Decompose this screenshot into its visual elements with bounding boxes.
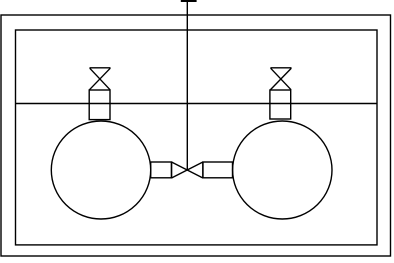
inner enclosure rectangle xyxy=(16,30,378,245)
right tank circle xyxy=(233,121,332,219)
left stub pipe rectangle xyxy=(151,162,172,178)
valve V2 (right vertical hourglass valve) xyxy=(270,68,291,90)
left neck pipe rectangle xyxy=(89,90,110,120)
top connector T-bar xyxy=(181,0,197,2)
valve V1 (left vertical hourglass valve) xyxy=(90,68,111,90)
horizontal divider line xyxy=(16,103,378,105)
right stub pipe rectangle xyxy=(203,162,233,178)
right neck pipe rectangle xyxy=(270,90,291,119)
left tank circle xyxy=(51,121,150,219)
vertical supply line xyxy=(186,0,188,170)
valve V3 (center horizontal bowtie valve) xyxy=(172,162,203,178)
